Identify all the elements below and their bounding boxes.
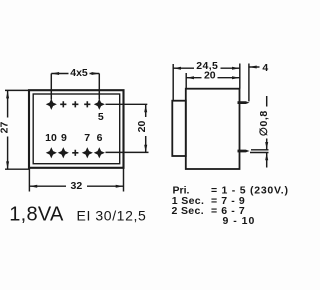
svg-text:27: 27 (0, 122, 11, 134)
pin 5 (top row star) (95, 100, 104, 109)
pin 9 (bottom row star) (59, 148, 68, 157)
top view outer case outline (29, 90, 124, 168)
dimension 24,5 arrows (173, 67, 240, 70)
svg-text:4: 4 (262, 62, 268, 74)
hole + (top row) (60, 101, 66, 107)
svg-text:6: 6 (97, 132, 103, 144)
svg-text:∅0,8: ∅0,8 (258, 110, 270, 136)
hole + (top row) (72, 101, 78, 107)
dimension 4x5 arrows (51, 72, 99, 75)
svg-text:7: 7 (84, 132, 90, 144)
dimension 32 extension lines (29, 168, 123, 192)
dimension 20 top-view line (145, 104, 147, 153)
dia 0,8 extension lines from bottom pin (250, 150, 269, 153)
dimension 4x5 line (51, 73, 99, 75)
dimension 20 top-view arrows (144, 105, 147, 153)
svg-text:9 - 10: 9 - 10 (223, 215, 256, 227)
svg-text:20: 20 (204, 70, 216, 82)
dimension 4 arrow (249, 66, 257, 69)
dimension 4 extension line (pin tip) (248, 64, 250, 102)
dimension 27 extension lines (5, 90, 30, 169)
svg-text:EI 30/12,5: EI 30/12,5 (77, 207, 147, 223)
side view body (186, 89, 240, 169)
pin 10 (bottom row star) (47, 148, 56, 157)
svg-text:4x5: 4x5 (70, 67, 88, 79)
svg-text:20: 20 (136, 121, 148, 133)
svg-text:2 Sec.: 2 Sec. (172, 205, 204, 217)
side view top pin (238, 101, 250, 104)
dimension 20 side-view line (186, 77, 240, 79)
dimension 20 side-view extension (body edge up) (185, 73, 187, 89)
dimension 32 line (29, 185, 123, 187)
extension line body right edge up (239, 64, 241, 89)
svg-text:9: 9 (61, 132, 67, 144)
svg-text:5: 5 (98, 111, 104, 123)
dimension 20 side-view arrows (186, 76, 240, 79)
hole + (top row) (84, 101, 90, 107)
dia 0,8 vertical line and tail (266, 96, 268, 168)
side view front protrusion (172, 101, 186, 156)
dimension 24,5 extension line left (172, 64, 174, 101)
dimension 27 arrows (6, 91, 9, 170)
side view bottom pin (238, 150, 250, 153)
svg-text:1,8VA: 1,8VA (9, 204, 64, 226)
dimension 20 top-view leader from pin 6 (106, 151, 149, 153)
dimension 24,5 line (173, 67, 240, 69)
dimension 27 line (7, 91, 9, 169)
pin 7 (bottom row star) (83, 148, 92, 157)
dimension 20 top-view leader from pin 5 (106, 103, 148, 105)
top view inner case outline (33, 94, 120, 164)
dimension 4x5 extension lines (51, 74, 99, 100)
dia 0,8 arrows (265, 142, 268, 160)
dimension 32 arrows (29, 185, 123, 188)
svg-text:32: 32 (71, 180, 83, 192)
hole + (bottom row) (72, 150, 78, 156)
pin 1 (top row star) (47, 100, 56, 109)
svg-text:10: 10 (45, 132, 57, 144)
dimension 4 line (249, 66, 260, 68)
pin 6 (bottom row star) (95, 148, 104, 157)
